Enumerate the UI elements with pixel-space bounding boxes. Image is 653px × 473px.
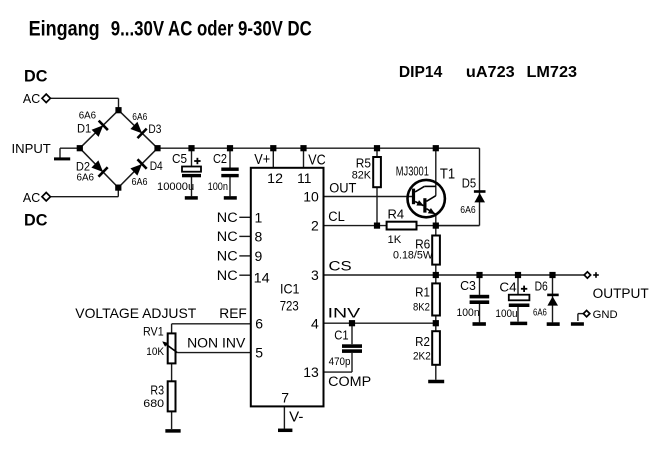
svg-text:8K2: 8K2 (413, 302, 430, 314)
svg-text:CL: CL (328, 209, 345, 224)
svg-text:NC: NC (217, 229, 238, 244)
svg-text:MJ3001: MJ3001 (396, 165, 429, 179)
svg-text:INV: INV (328, 306, 361, 321)
svg-text:VC: VC (308, 151, 326, 168)
svg-text:DC: DC (24, 67, 47, 86)
svg-text:NC: NC (217, 249, 238, 264)
svg-text:OUT: OUT (329, 180, 356, 195)
svg-text:6: 6 (255, 316, 263, 332)
svg-text:C5: C5 (172, 152, 187, 166)
svg-text:5: 5 (255, 345, 263, 361)
svg-text:680: 680 (143, 398, 164, 410)
svg-text:IC1: IC1 (280, 281, 300, 297)
svg-text:4: 4 (311, 315, 319, 331)
svg-text:V+: V+ (254, 151, 270, 168)
svg-text:723: 723 (280, 299, 299, 314)
svg-text:9: 9 (255, 248, 263, 264)
svg-text:100n: 100n (457, 307, 480, 319)
svg-text:GND: GND (593, 309, 618, 321)
svg-text:R1: R1 (415, 285, 430, 299)
svg-text:AC: AC (23, 190, 40, 205)
svg-text:1K: 1K (388, 234, 402, 246)
svg-text:RV1: RV1 (143, 326, 164, 338)
svg-text:AC: AC (23, 91, 40, 106)
svg-text:T1: T1 (440, 166, 455, 182)
svg-text:REF: REF (219, 306, 247, 321)
svg-text:10000u: 10000u (157, 181, 194, 193)
svg-text:100n: 100n (208, 181, 228, 193)
svg-text:NC: NC (217, 210, 238, 225)
svg-text:C2: C2 (213, 152, 227, 166)
svg-text:R2: R2 (415, 335, 430, 349)
svg-text:2: 2 (311, 218, 319, 234)
svg-text:C3: C3 (460, 279, 476, 293)
svg-text:DC: DC (24, 211, 47, 230)
svg-text:470p: 470p (329, 356, 351, 368)
svg-text:6A6: 6A6 (77, 172, 95, 183)
svg-text:12: 12 (267, 170, 283, 186)
svg-text:COMP: COMP (328, 374, 371, 389)
svg-text:D6: D6 (535, 279, 548, 293)
svg-text:13: 13 (303, 364, 319, 380)
svg-text:R3: R3 (150, 383, 164, 397)
svg-text:uA723: uA723 (466, 64, 515, 81)
svg-text:100u: 100u (495, 308, 517, 320)
svg-text:3: 3 (311, 267, 319, 283)
svg-text:6A6: 6A6 (132, 112, 147, 123)
svg-text:CS: CS (329, 259, 352, 274)
svg-text:14: 14 (254, 269, 270, 285)
svg-text:D3: D3 (148, 124, 161, 136)
svg-text:10K: 10K (146, 346, 164, 358)
svg-text:NC: NC (217, 268, 238, 283)
svg-text:2K2: 2K2 (413, 350, 431, 362)
svg-text:7: 7 (281, 390, 289, 406)
svg-text:R5: R5 (356, 156, 371, 170)
svg-text:D1: D1 (77, 123, 91, 135)
svg-text:10: 10 (303, 189, 319, 205)
svg-text:INPUT: INPUT (12, 141, 51, 156)
svg-text:9...30V AC oder 9-30V DC: 9...30V AC oder 9-30V DC (111, 18, 312, 41)
svg-text:C4: C4 (499, 280, 516, 294)
svg-text:Eingang: Eingang (29, 18, 100, 41)
svg-text:NON INV: NON INV (187, 335, 245, 350)
svg-text:LM723: LM723 (527, 64, 578, 81)
svg-text:VOLTAGE ADJUST: VOLTAGE ADJUST (75, 305, 196, 321)
svg-text:82K: 82K (352, 169, 372, 181)
svg-text:8: 8 (255, 229, 263, 245)
svg-text:DIP14: DIP14 (399, 64, 443, 81)
svg-text:D4: D4 (150, 161, 164, 173)
svg-text:6A6: 6A6 (460, 204, 476, 216)
svg-text:C1: C1 (334, 328, 348, 342)
svg-text:1: 1 (255, 209, 263, 225)
svg-text:6A6: 6A6 (533, 307, 547, 319)
svg-text:R4: R4 (388, 207, 405, 221)
svg-text:11: 11 (297, 170, 311, 186)
svg-text:OUTPUT: OUTPUT (593, 286, 649, 301)
svg-text:6A6: 6A6 (79, 111, 97, 122)
svg-text:6A6: 6A6 (132, 177, 148, 188)
svg-text:D5: D5 (462, 176, 476, 190)
svg-text:0.18/5W: 0.18/5W (393, 249, 434, 261)
svg-text:V-: V- (289, 409, 303, 426)
